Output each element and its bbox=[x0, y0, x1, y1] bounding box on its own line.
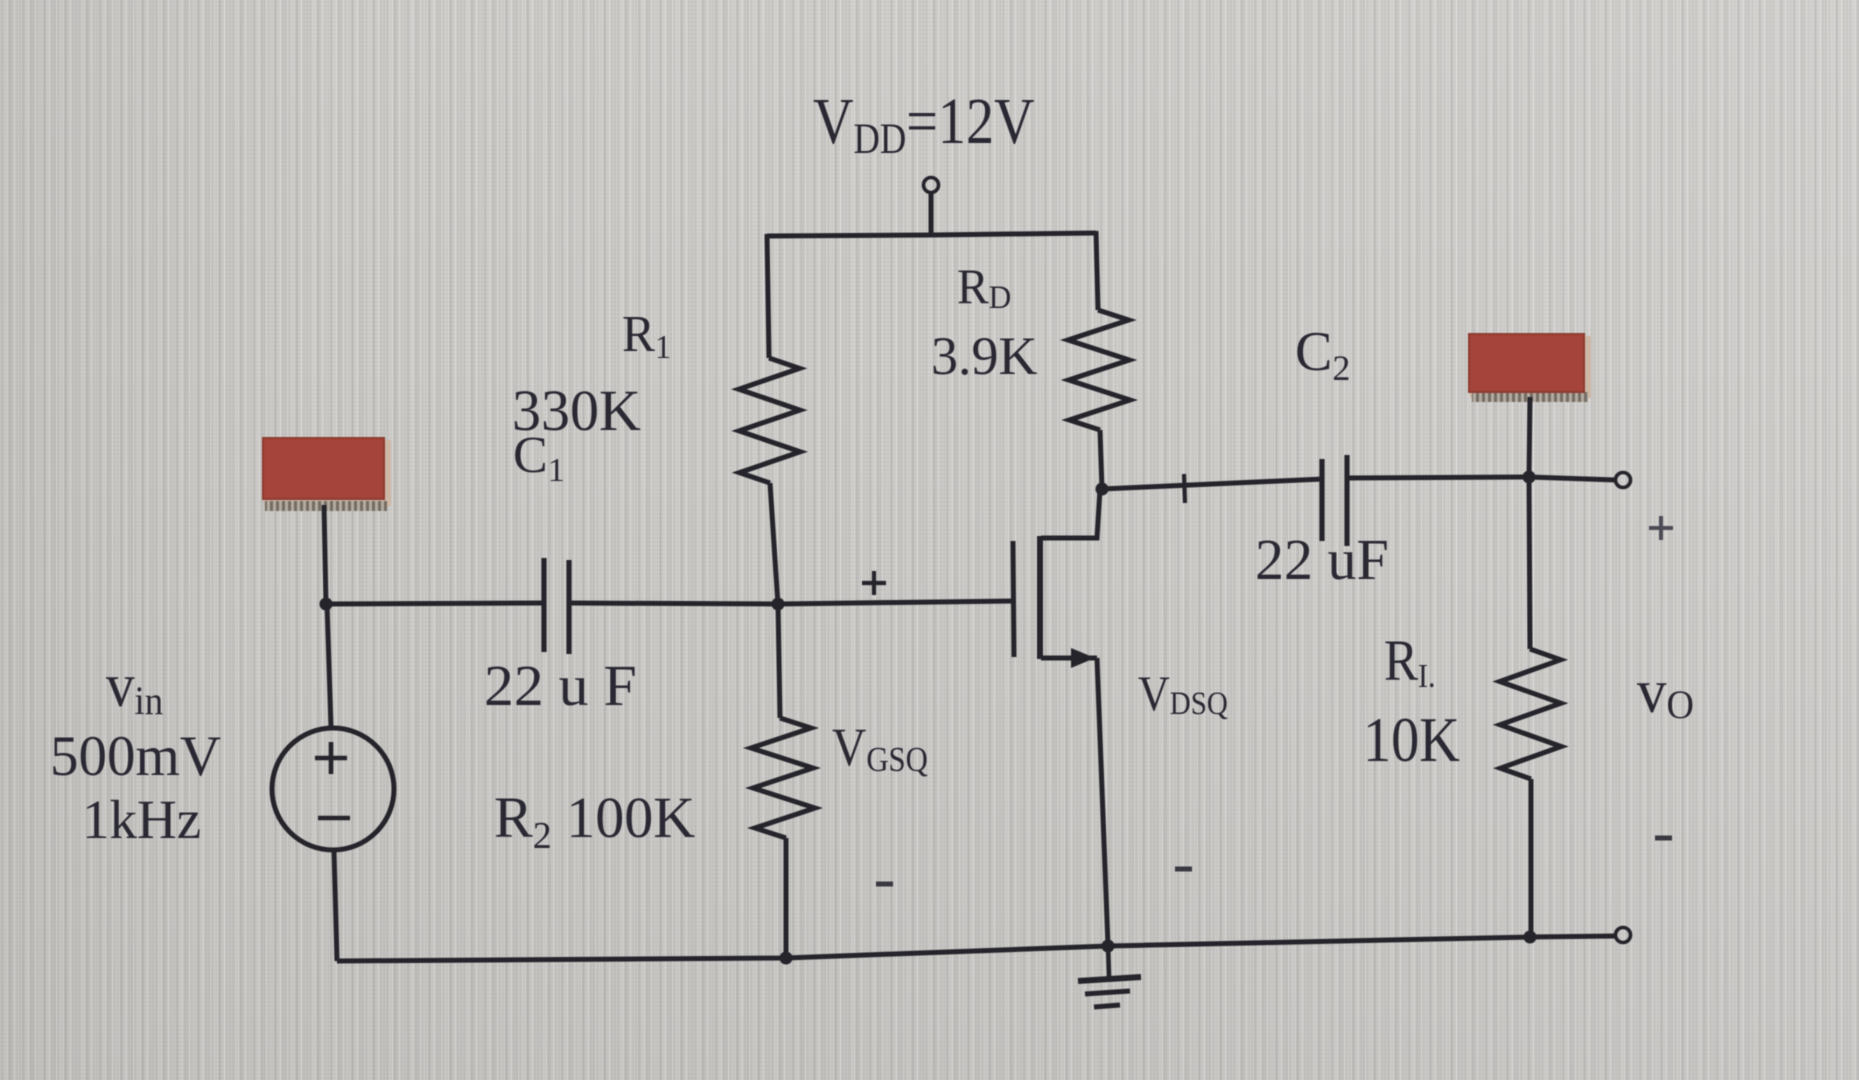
svg-text:22 u F: 22 u F bbox=[484, 654, 637, 718]
svg-text:vO: vO bbox=[1637, 658, 1694, 728]
svg-text:22 uF: 22 uF bbox=[1255, 527, 1389, 592]
svg-text:vin: vin bbox=[106, 651, 163, 724]
svg-text:VGSQ: VGSQ bbox=[832, 718, 928, 779]
svg-text:VDSQ: VDSQ bbox=[1138, 666, 1228, 721]
svg-text:RI.: RI. bbox=[1384, 628, 1435, 694]
svg-text:C2: C2 bbox=[1295, 321, 1350, 388]
svg-text:1kHz: 1kHz bbox=[82, 789, 201, 850]
svg-text:3.9K: 3.9K bbox=[931, 326, 1038, 386]
svg-text:10K: 10K bbox=[1363, 705, 1460, 776]
svg-text:RD: RD bbox=[957, 259, 1011, 315]
svg-text:VDD=12V: VDD=12V bbox=[813, 85, 1035, 163]
svg-text:R2 100K: R2 100K bbox=[494, 785, 695, 857]
svg-text:500mV: 500mV bbox=[50, 725, 221, 788]
svg-text:R1: R1 bbox=[622, 305, 671, 366]
